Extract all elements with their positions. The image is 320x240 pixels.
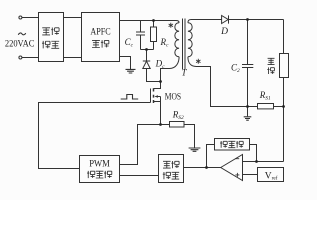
wire rectifier to APFC bottom: [64, 57, 82, 59]
wire clamp bottom: [141, 49, 154, 51]
wire secondary top to diode D: [188, 20, 222, 23]
rectifier-filter box: [39, 13, 64, 62]
wire load bottom to sense node: [283, 78, 285, 162]
MOS source vertical: [160, 97, 162, 125]
transformer T primary winding: [175, 23, 179, 57]
ground G2 bars: [189, 148, 201, 151]
op-amp plus sign: [235, 173, 239, 177]
wire diode D to output corner: [229, 19, 284, 21]
wire top terminal to rectifier: [22, 17, 39, 19]
node Rc top: [152, 19, 155, 22]
svg-text:MOS: MOS: [165, 92, 181, 102]
wire secondary bottom return: [188, 57, 248, 107]
label kongzhiqi (controller): [87, 171, 95, 178]
svg-text:220VAC: 220VAC: [5, 39, 35, 49]
resistor Rc body: [151, 27, 157, 42]
node MOS source: [159, 123, 162, 126]
resistor Rs1 body: [258, 104, 274, 109]
wire current sense to PWM: [120, 125, 170, 165]
node MOS drain: [159, 80, 162, 83]
wire inverting input: [243, 161, 284, 163]
wire APFC output top rail to transformer primary: [120, 21, 180, 23]
transformer T secondary winding: [188, 23, 192, 57]
optocoupler box: [159, 155, 184, 183]
wire rectifier to APFC top: [64, 17, 82, 19]
label buchangqi (compensator): [220, 141, 227, 148]
node Dc clamp: [145, 48, 148, 51]
label dianlu (circuit): [92, 40, 100, 47]
ground G1: [126, 69, 136, 73]
wire compensator right lead: [250, 145, 257, 162]
MOS drain lead: [154, 82, 161, 89]
svg-text:PWM: PWM: [89, 159, 110, 169]
op-amp minus sign: [235, 158, 239, 160]
resistor Rs2 body: [170, 122, 185, 128]
APFC box U2: [82, 13, 120, 62]
wire Rs1 to right node: [274, 106, 284, 108]
label guang'ou (opto): [163, 161, 171, 168]
capacitor Cc lead top: [140, 21, 142, 33]
svg-text:D: D: [220, 27, 228, 37]
AC tilde symbol: [18, 33, 25, 35]
wire output right vertical to load: [283, 20, 285, 54]
polarity dot primary: [169, 23, 173, 28]
transformer T core: [183, 19, 186, 70]
resistor Rc leads: [153, 21, 155, 50]
op-amp U1: [221, 155, 243, 181]
wire APFC bottom to ground: [120, 57, 131, 70]
AC source terminal bottom: [19, 56, 22, 59]
capacitor C2 lead top: [247, 20, 249, 65]
capacitor Cc plates: [136, 32, 145, 35]
label fuzai (load): [268, 58, 275, 64]
label zhengliu lvbo (rectifier filter): [42, 28, 50, 35]
gate pulse icon: [121, 95, 139, 100]
diode D cathode bar: [228, 15, 230, 23]
label geli (isolation): [163, 172, 171, 179]
ground G3 bars: [244, 117, 252, 120]
MOS body arrowhead: [154, 95, 158, 98]
capacitor C2 lead bottom: [247, 68, 249, 107]
AC source terminal top: [19, 16, 22, 19]
node output sense: [282, 105, 285, 108]
diode Dc stem top: [146, 50, 148, 62]
wire noninverting input to Vref: [243, 174, 258, 176]
MOS gate bar: [150, 89, 152, 103]
capacitor C2 plates: [242, 65, 253, 68]
wire C2 node to Rs1: [248, 106, 258, 108]
load resistor body: [280, 54, 289, 78]
node C2 top: [246, 18, 249, 21]
MOS source line: [154, 101, 161, 103]
PWM controller box: [80, 156, 120, 183]
diode Dc stem bottom: [147, 69, 161, 82]
compensator box: [215, 139, 250, 151]
wire optocoupler to op-amp output: [184, 167, 221, 169]
diode Dc triangle: [143, 61, 150, 68]
MOS channel bars: [153, 88, 155, 103]
wire Rs2 to ground: [184, 125, 195, 148]
node op-amp output: [205, 166, 208, 169]
capacitor Cc lead bottom: [140, 35, 142, 50]
wire bottom terminal to rectifier: [22, 57, 39, 59]
diode D triangle: [222, 16, 229, 24]
diode Dc cathode bar: [143, 60, 150, 62]
ground G3 stem: [247, 107, 249, 117]
wire compensator left lead: [207, 145, 215, 168]
wire primary bottom to MOS drain: [161, 57, 180, 82]
wire PWM to optocoupler: [120, 175, 159, 177]
node C2 bottom: [246, 105, 249, 108]
Vref box: [258, 168, 284, 182]
svg-text:APFC: APFC: [90, 26, 110, 36]
MOS body line: [155, 96, 160, 98]
wire gate to PWM loop: [39, 103, 151, 169]
node inverting input: [255, 160, 258, 163]
polarity dot secondary: [196, 59, 200, 64]
